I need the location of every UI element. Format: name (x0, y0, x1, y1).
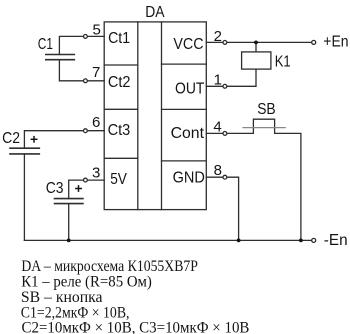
wire relay K1 to pin1 (227, 69, 256, 86)
svg-text:C2: C2 (2, 130, 20, 147)
svg-text:K1: K1 (275, 54, 291, 71)
capacitor C2 top plate (9, 147, 40, 149)
capacitor C2 polarity plus (31, 138, 38, 140)
svg-text:5: 5 (93, 22, 101, 39)
pin 5 stub (88, 35, 105, 37)
svg-text:DA – микросхема К1055ХВ7Р: DA – микросхема К1055ХВ7Р (21, 258, 198, 275)
capacitor C1 top plate (45, 54, 75, 56)
pin 3 terminal circle (84, 178, 88, 182)
wire pin3 to C3 top (69, 180, 84, 199)
svg-text:5V: 5V (110, 171, 127, 188)
svg-text:GND: GND (173, 169, 205, 186)
capacitor C2 bottom plate (9, 153, 40, 155)
svg-text:8: 8 (214, 162, 222, 179)
wire C2 bottom to ground rail (23, 154, 25, 241)
svg-text:7: 7 (92, 64, 100, 81)
wire pin6 to C2 top (24, 131, 83, 149)
pin 7 stub (88, 80, 105, 82)
svg-text:Ct3: Ct3 (108, 122, 131, 139)
pin 7 terminal circle (84, 79, 88, 83)
capacitor C1 bottom plate (45, 59, 75, 61)
terminal circle -En (312, 238, 316, 242)
svg-text:OUT: OUT (175, 81, 205, 98)
IC DA cell divider Ct2/Ct3 (104, 108, 138, 110)
svg-text:6: 6 (92, 114, 100, 131)
IC DA cell divider Cont/GND (162, 160, 207, 162)
ground rail wire to -En (24, 239, 311, 241)
junction dot SB wire on ground rail (299, 239, 303, 243)
switch SB actuator (253, 119, 274, 127)
switch SB right contact wire (275, 128, 301, 240)
wire C3 bottom to ground rail (68, 204, 70, 241)
capacitor C3 top plate (54, 198, 84, 200)
pin 5 terminal circle (84, 35, 88, 39)
svg-text:4: 4 (213, 119, 221, 136)
pin 4 terminal circle (223, 132, 227, 136)
svg-text:1: 1 (214, 72, 222, 89)
svg-text:VCC: VCC (173, 36, 203, 53)
relay K1 coil (242, 52, 271, 69)
svg-text:C1: C1 (38, 36, 53, 53)
wire pin8 to ground rail (227, 177, 239, 240)
IC DA cell divider Ct3/5V (104, 157, 138, 159)
capacitor C3 bottom plate (54, 203, 84, 205)
IC DA cell divider VCC/OUT (162, 63, 207, 65)
svg-text:-En: -En (324, 232, 348, 249)
svg-text:Ct1: Ct1 (108, 30, 130, 47)
pin 8 stub (206, 176, 222, 178)
svg-text:SB: SB (257, 101, 276, 118)
svg-text:Cont: Cont (171, 125, 205, 142)
pin 6 terminal circle (84, 129, 88, 133)
pin 2 terminal circle (223, 41, 227, 45)
wire C1 bottom to pin7 (59, 60, 83, 81)
junction dot VCC node (254, 41, 258, 45)
svg-text:SB – кнопка: SB – кнопка (21, 289, 103, 306)
IC DA left column divider (137, 22, 139, 210)
pin 2 stub (206, 41, 222, 43)
svg-text:2: 2 (214, 28, 222, 45)
pin 6 stub (88, 130, 105, 132)
pin 4 stub (206, 132, 222, 134)
svg-text:Ct2: Ct2 (108, 74, 131, 91)
pin 8 terminal circle (223, 175, 227, 179)
IC DA cell divider OUT/Cont (162, 108, 207, 110)
junction dot pin8 wire on ground rail (237, 239, 241, 243)
svg-text:DA: DA (145, 4, 165, 21)
pin 1 terminal circle (223, 84, 227, 88)
svg-text:+En: +En (323, 34, 348, 51)
wire pin5 to C1 top (59, 36, 83, 54)
IC DA right column divider (161, 22, 163, 210)
wire VCC node to relay K1 (255, 42, 257, 52)
pin 3 stub (88, 179, 105, 181)
wire pin4 to SB left contact (227, 128, 253, 133)
switch SB moving contact bar (242, 127, 286, 129)
pin 1 stub (206, 85, 222, 87)
terminal circle +En (312, 40, 316, 44)
IC DA cell divider Ct1/Ct2 (104, 64, 138, 66)
svg-text:К1 – реле (R=85 Ом): К1 – реле (R=85 Ом) (21, 273, 152, 290)
wire pin2 to +En terminal (227, 41, 311, 43)
capacitor C3 polarity plus (75, 188, 82, 190)
svg-text:С2=10мкФ × 10В, С3=10мкФ × 10В: С2=10мкФ × 10В, С3=10мкФ × 10В (22, 320, 250, 334)
junction dot C3 on ground rail (67, 239, 71, 243)
IC DA body (104, 22, 206, 210)
svg-text:C3: C3 (46, 180, 64, 197)
svg-text:3: 3 (92, 164, 100, 181)
